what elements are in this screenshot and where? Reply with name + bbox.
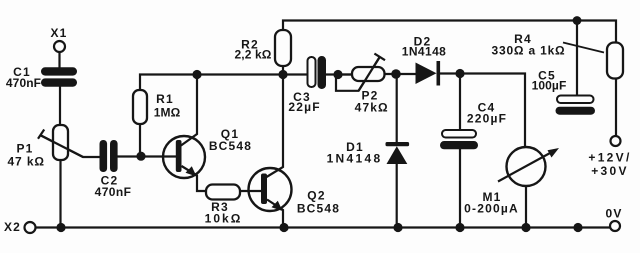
svg-text:100µF: 100µF (532, 79, 567, 93)
svg-text:1MΩ: 1MΩ (154, 106, 181, 120)
svg-text:470nF: 470nF (6, 76, 41, 90)
svg-text:+12V/: +12V/ (588, 151, 631, 165)
svg-text:220µF: 220µF (467, 112, 507, 126)
svg-text:X1: X1 (50, 26, 67, 40)
svg-text:1N4148: 1N4148 (402, 45, 446, 59)
svg-text:X2: X2 (4, 220, 21, 234)
svg-text:470nF: 470nF (95, 185, 132, 199)
svg-text:330Ω a 1kΩ: 330Ω a 1kΩ (492, 44, 566, 58)
svg-text:P1: P1 (16, 142, 33, 156)
svg-text:BC548: BC548 (209, 139, 252, 153)
svg-text:47 kΩ: 47 kΩ (7, 155, 44, 169)
svg-text:1N4148: 1N4148 (327, 152, 383, 166)
svg-text:Q2: Q2 (307, 189, 325, 203)
svg-text:0V: 0V (605, 207, 622, 221)
svg-text:BC548: BC548 (297, 202, 340, 216)
svg-text:R1: R1 (156, 92, 174, 106)
svg-text:2,2 kΩ: 2,2 kΩ (235, 48, 272, 62)
svg-text:+30V: +30V (591, 164, 629, 178)
svg-text:22µF: 22µF (288, 100, 320, 114)
svg-text:10kΩ: 10kΩ (205, 212, 243, 226)
svg-text:47kΩ: 47kΩ (355, 101, 389, 115)
svg-text:0-200µA: 0-200µA (464, 202, 519, 216)
